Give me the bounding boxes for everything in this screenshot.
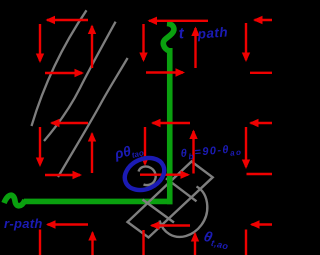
svg-text:r-path: r-path [4,216,43,231]
svg-text:θt,ao: θt,ao [202,229,232,252]
svg-text:t: t [178,25,185,42]
svg-text:θb=90-θao: θb=90-θao [180,143,242,162]
svg-text:path: path [196,24,228,41]
